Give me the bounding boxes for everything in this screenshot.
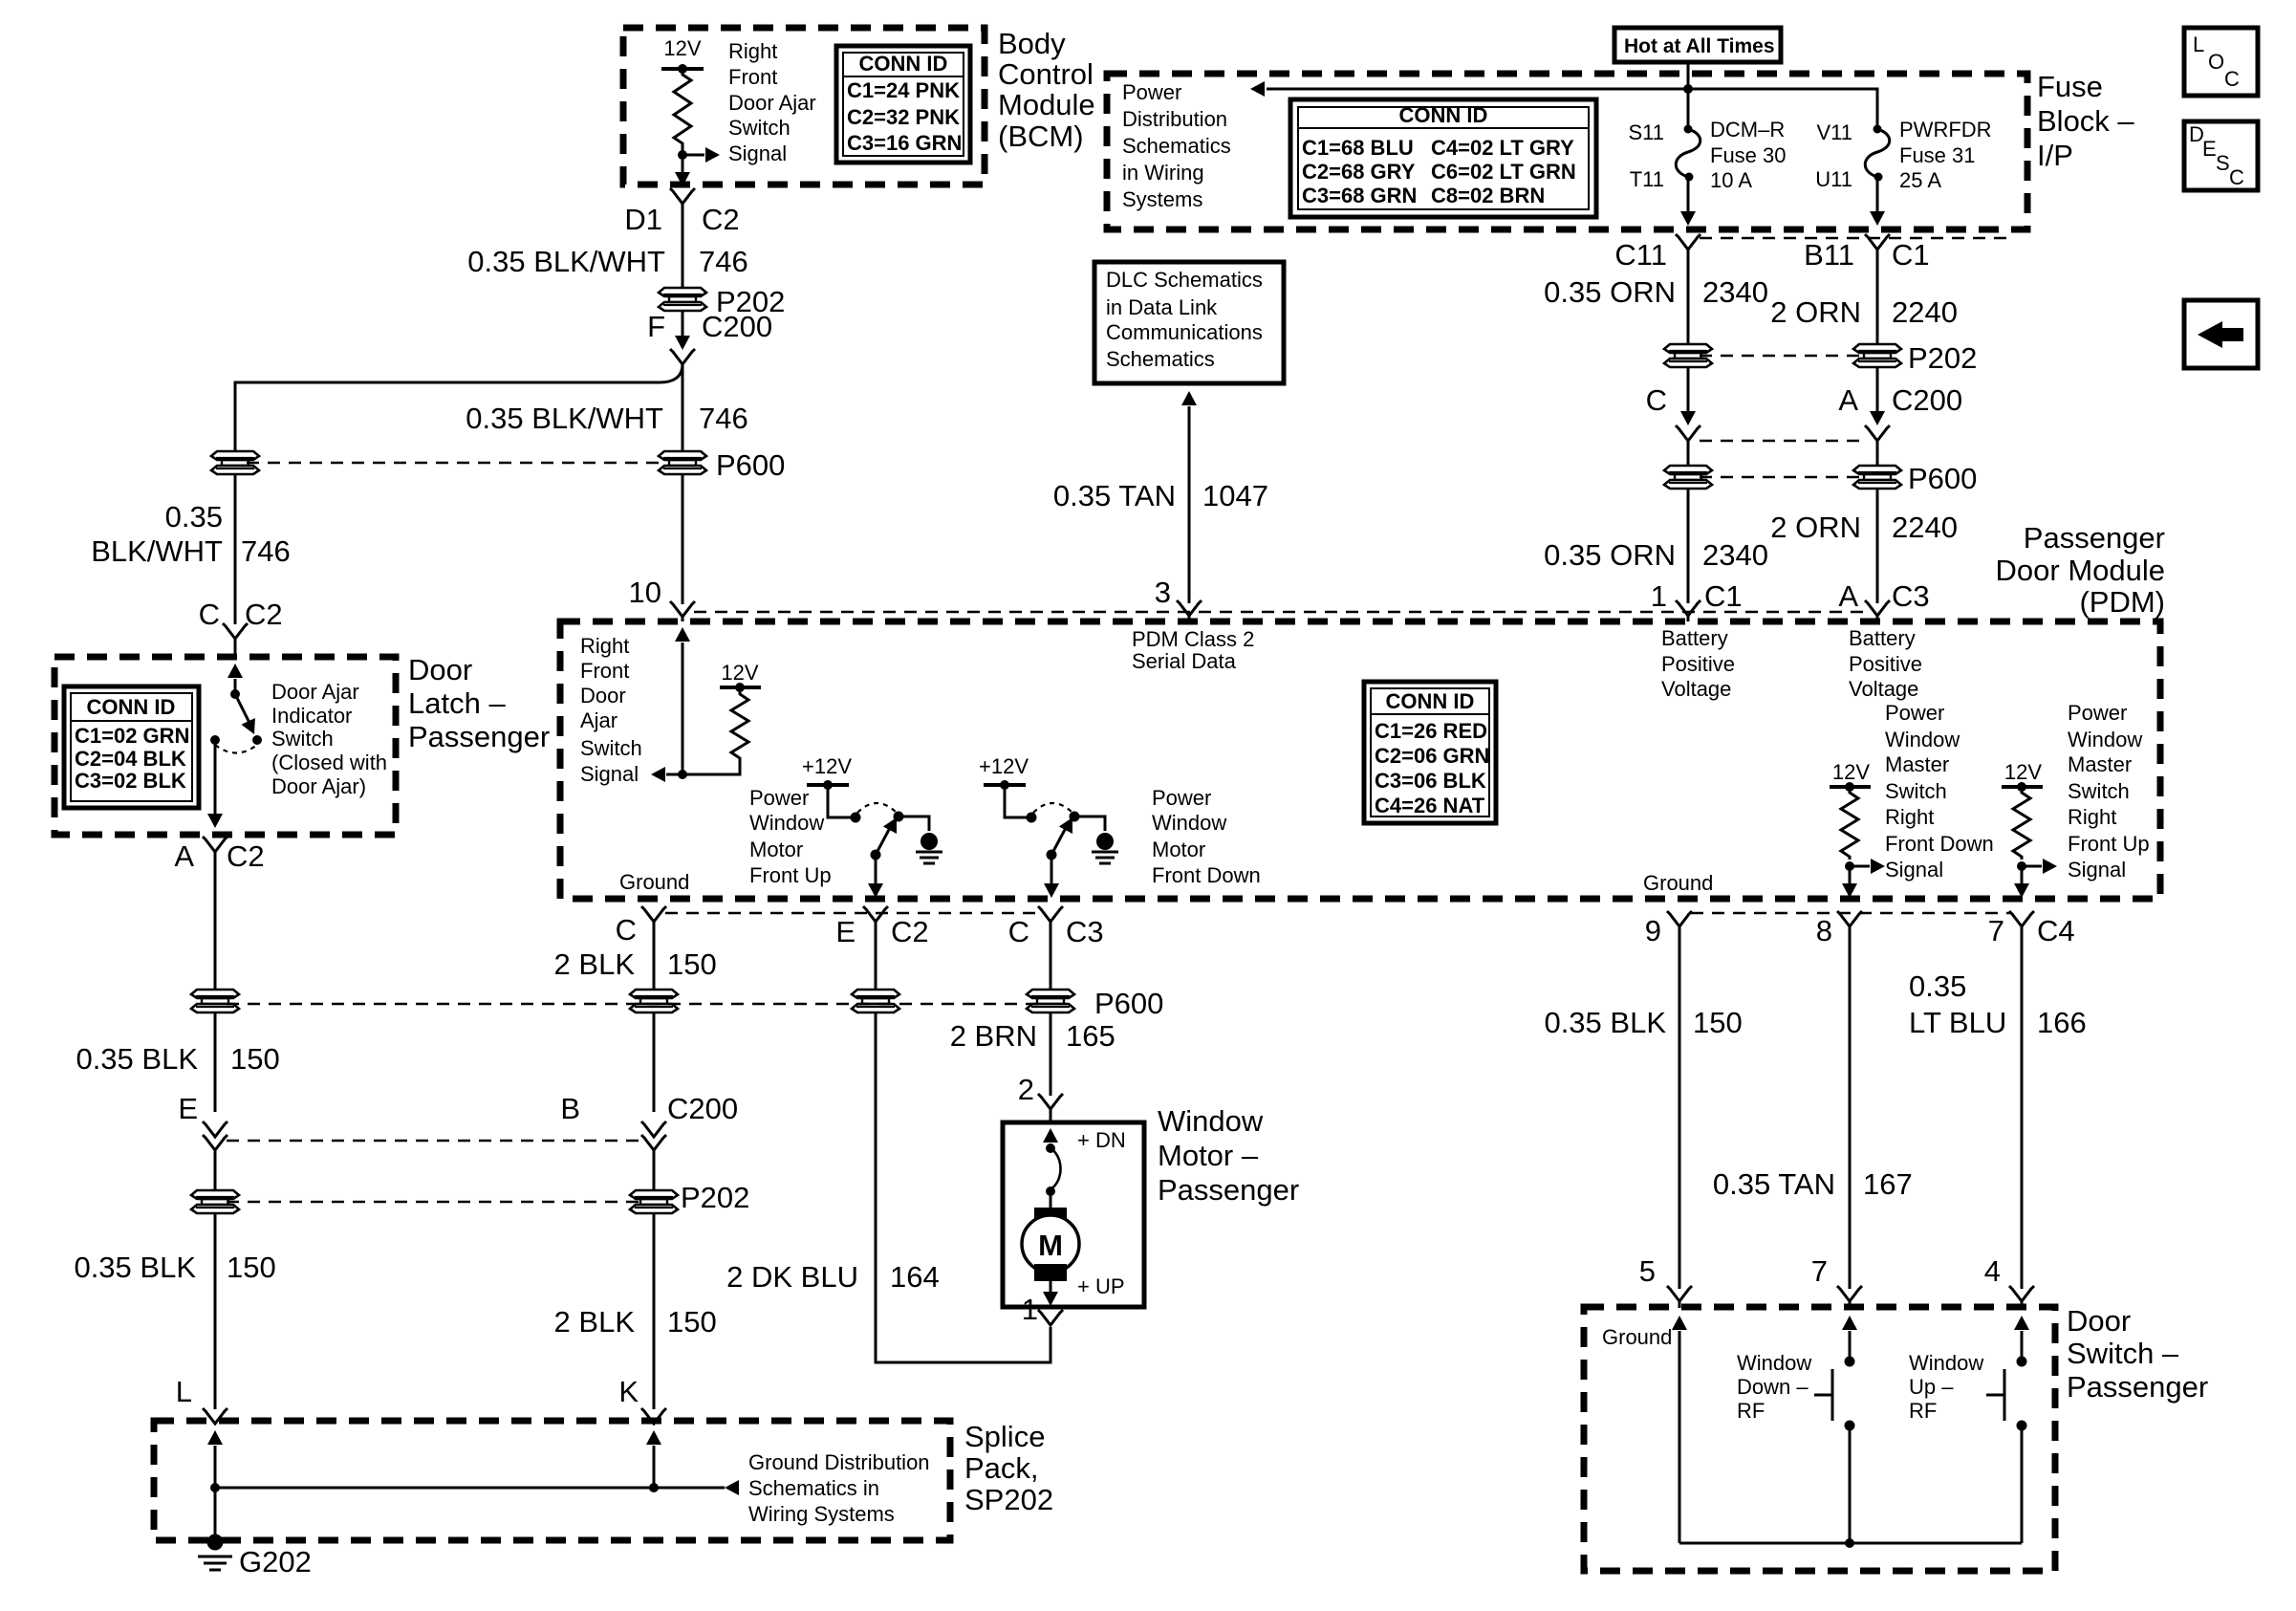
svg-text:0.35 TAN: 0.35 TAN [1053,479,1176,512]
svg-text:A: A [174,839,194,873]
svg-text:Ground: Ground [619,870,689,894]
relay dashed arc (front down) [1033,803,1072,813]
in-line connector on motor-down wire (P600 row) [1027,990,1074,1012]
svg-text:B11: B11 [1804,238,1854,272]
door ajar switch contact dot right [252,735,262,745]
relay blade (front up) [876,826,891,855]
svg-text:Front Down: Front Down [1152,863,1261,887]
svg-text:0.35: 0.35 [165,500,223,533]
svg-text:Module: Module [998,88,1095,121]
chevron door switch pin 7 [1837,1286,1862,1301]
svg-text:Window: Window [2068,728,2142,751]
svg-text:0.35 BLK: 0.35 BLK [76,1042,198,1076]
svg-text:C1=68 BLU: C1=68 BLU [1302,136,1414,160]
pin 7 entry arrow up [1842,1316,1857,1330]
chevron PDM pin A [1865,600,1890,616]
svg-text:Front Up: Front Up [749,863,832,887]
relay 12V bar (front up) [807,783,849,787]
svg-text:2 ORN: 2 ORN [1770,511,1861,544]
BCM signal arrow right [682,154,704,157]
wire 167 pin 8 to door switch [1849,926,1852,1289]
in-line connector P202 left wire [191,1190,239,1213]
splice reference arrow left [725,1480,739,1495]
svg-text:C11: C11 [1614,238,1667,272]
svg-text:SP202: SP202 [964,1483,1053,1516]
relay feed wire (front down) [1005,785,1029,817]
svg-text:Signal: Signal [580,762,639,786]
splice pin K arrow up [646,1430,661,1445]
master switch 12V bar (front down) [1830,785,1871,789]
window up switch plunger [2004,1369,2006,1421]
back arrow box [2184,300,2258,368]
serial data wire 1047 with up arrow [1181,391,1197,405]
svg-text:Latch –: Latch – [408,686,506,720]
svg-text:E: E [2202,137,2217,161]
svg-text:Right: Right [728,39,777,63]
relay blade dot (front up) [871,850,881,860]
svg-text:Ground Distribution: Ground Distribution [748,1450,930,1474]
ground bus wire [1679,1542,2022,1545]
wire 746 BCM to P202 [682,204,684,289]
svg-text:1047: 1047 [1202,479,1268,512]
svg-text:Fuse 30: Fuse 30 [1710,143,1787,167]
svg-text:(PDM): (PDM) [2079,585,2165,619]
wire to C200 row [214,1012,217,1112]
branch wire to left column [235,364,682,452]
svg-text:F: F [647,310,665,343]
svg-text:C3: C3 [1892,579,1930,613]
svg-text:DLC Schematics: DLC Schematics [1106,268,1263,292]
relay dashed arc (front up) [857,803,897,813]
dashed connector tie line C200 row [227,1140,642,1142]
svg-text:Serial Data: Serial Data [1132,649,1237,673]
svg-text:B: B [560,1092,580,1125]
svg-text:Window: Window [1152,811,1226,835]
svg-text:S: S [2216,151,2230,175]
svg-text:C1=02 GRN: C1=02 GRN [75,724,189,748]
svg-text:Control: Control [998,57,1094,91]
svg-text:C3=06 BLK: C3=06 BLK [1375,769,1486,793]
svg-text:T11: T11 [1630,167,1664,191]
svg-text:0.35 ORN: 0.35 ORN [1544,275,1676,309]
in-line connector P202 on 2240 wire [1853,344,1901,367]
wire 150 door latch to P600 row [214,852,217,991]
svg-text:L: L [176,1375,192,1408]
chevron PDM pin 7 [2009,911,2034,926]
svg-text:LT BLU: LT BLU [1909,1006,2006,1039]
svg-text:C2=68 GRY: C2=68 GRY [1302,160,1416,184]
PDM pull-up resistor (door ajar) [682,687,748,774]
relay output arrow pin C [1051,855,1053,883]
svg-text:in Wiring: in Wiring [1122,161,1204,185]
svg-text:Signal: Signal [1885,858,1943,882]
chevron door latch pin C [223,623,248,639]
motor-down wire P600 to pin 2 [1050,1012,1052,1096]
chevron fuse block pin B11 [1865,234,1890,250]
svg-text:Front Up: Front Up [2068,832,2150,856]
power feed arrow to Power Distribution [1250,81,1265,97]
svg-text:Wiring Systems: Wiring Systems [748,1502,895,1526]
svg-text:Ground: Ground [1643,871,1713,895]
module box: Fuse Block - I/P [1107,74,2027,229]
wire P600 to PDM pin 10 [682,473,684,604]
svg-text:S11: S11 [1628,120,1664,144]
svg-text:I/P: I/P [2037,139,2073,172]
svg-text:150: 150 [1693,1006,1743,1039]
connector C200 arrow + chevron on wire A [675,336,690,350]
svg-text:C: C [199,598,220,631]
splice junction dot L [210,1483,220,1492]
svg-text:Power: Power [2068,701,2127,725]
svg-text:12V: 12V [721,661,758,685]
svg-text:2 ORN: 2 ORN [1770,295,1861,329]
motor brush dot top [1046,1143,1055,1153]
fuse 31 PWRFDR [1874,125,1882,134]
fuse block CONN ID table [1290,99,1596,217]
pin 5 entry arrow up [1672,1316,1687,1330]
svg-text:Power: Power [749,786,809,810]
svg-text:Door Ajar: Door Ajar [728,91,816,115]
svg-text:Schematics in: Schematics in [748,1476,879,1500]
svg-text:RF: RF [1909,1399,1937,1423]
in-line connector P202 on 2340 wire [1664,344,1712,367]
svg-text:2240: 2240 [1892,511,1958,544]
svg-text:Voltage: Voltage [1849,677,1918,701]
svg-text:+ DN: + DN [1077,1128,1126,1152]
relay ground symbol (front up) [916,833,942,863]
ground wire to C200 [653,1012,656,1112]
svg-text:Front: Front [580,659,629,683]
svg-text:12V: 12V [1832,760,1870,784]
svg-text:C: C [2229,165,2244,189]
master switch output arrow (front up) [2021,866,2024,883]
module box: Passenger Door Module (PDM) [560,621,2160,899]
chevron PDM pin C (motor down) [1038,906,1063,922]
PDM CONN ID table [1364,682,1496,823]
in-line connector P600 on 2340 wire [1664,466,1712,489]
relay contact dot left (front up) [851,813,861,823]
relay output arrow pin E [875,855,877,883]
svg-text:C4=02 LT GRY: C4=02 LT GRY [1431,136,1574,160]
chevron splice pack pin K [641,1408,666,1424]
wire segment to C200 [1687,366,1690,412]
svg-text:A: A [1838,383,1858,417]
svg-text:C2: C2 [891,915,929,948]
chevron motor pin 2 [1038,1094,1063,1109]
svg-text:E: E [835,915,856,948]
feed junction dot [1683,84,1693,94]
svg-text:Right: Right [580,634,629,658]
svg-text:Positive: Positive [1849,652,1922,676]
fuse 30 output arrow [1687,177,1690,211]
in-line connector on left wire (P600 row) [191,990,239,1012]
svg-text:0.35 BLK: 0.35 BLK [74,1251,196,1284]
PDM signal junction dot [678,770,687,779]
dashed tie line P600 bottom row [227,1003,1039,1005]
chevron door switch pin 5 [1667,1286,1692,1301]
svg-text:150: 150 [230,1042,280,1076]
BCM junction dot [678,150,687,160]
svg-text:CONN ID: CONN ID [859,52,948,76]
motor armature symbol [1050,1191,1052,1208]
door ajar switch dashed arc [215,745,257,753]
svg-text:C1: C1 [1892,238,1930,272]
svg-text:P600: P600 [1094,987,1163,1020]
svg-text:+ UP: + UP [1077,1274,1125,1298]
svg-text:Passenger: Passenger [408,720,550,753]
svg-text:Passenger: Passenger [1158,1173,1299,1207]
svg-text:Window: Window [1885,728,1960,751]
resistor inside BCM (door ajar pull-up) [674,69,691,155]
svg-text:C200: C200 [1892,383,1962,417]
svg-text:CONN ID: CONN ID [1386,689,1475,713]
BCM pin 10 arrow down (exit) [682,155,684,172]
LOC index box [2184,28,2258,96]
ground bus junction dot [1845,1538,1854,1548]
svg-text:Indicator: Indicator [271,704,352,728]
svg-text:0.35 TAN: 0.35 TAN [1713,1167,1835,1201]
svg-text:BLK/WHT: BLK/WHT [91,534,223,568]
motor exit arrow down [1050,1281,1052,1293]
svg-text:4: 4 [1984,1254,2001,1288]
svg-text:DCM–R: DCM–R [1710,118,1785,142]
svg-text:Window: Window [1158,1104,1264,1138]
svg-text:10 A: 10 A [1710,168,1752,192]
power feed horizontal wire [1267,89,1877,129]
fuse 30 DCM-R [1684,125,1693,134]
in-line connector P202 ground wire [630,1190,678,1213]
dashed tie line P202 right row [1700,355,1864,357]
in-line connector on E wire (P600 row) [852,990,899,1012]
svg-text:M: M [1038,1229,1063,1262]
svg-text:2 DK BLU: 2 DK BLU [726,1260,858,1294]
svg-text:C3: C3 [1066,915,1104,948]
window up switch lower wire [2021,1426,2024,1543]
svg-text:746: 746 [699,245,748,278]
svg-text:Door: Door [2067,1304,2131,1338]
svg-text:Front: Front [728,65,777,89]
svg-text:P202: P202 [681,1181,749,1214]
svg-text:164: 164 [890,1260,940,1294]
door ajar switch contact dot top [230,689,240,699]
dashed tie line above PDM top [694,611,1866,613]
chevron PDM pin E [863,906,888,922]
svg-text:C8=02 BRN: C8=02 BRN [1431,184,1545,207]
splice pin L arrow up [207,1430,223,1445]
svg-text:Front Down: Front Down [1885,832,1994,856]
chevron PDM pin 1 [1676,600,1700,616]
relay contact dot right (front up) [894,812,904,822]
svg-text:Pack,: Pack, [964,1451,1039,1485]
module box: Splice Pack SP202 [154,1421,950,1540]
motor entry arrow up [1043,1128,1058,1143]
svg-text:2340: 2340 [1702,538,1768,572]
svg-text:Positive: Positive [1661,652,1735,676]
dashed tie line below PDM right [1691,912,2010,914]
svg-text:Block –: Block – [2037,104,2134,138]
svg-text:RF: RF [1737,1399,1765,1423]
svg-text:G202: G202 [239,1545,312,1578]
svg-text:2 BLK: 2 BLK [554,1305,636,1339]
svg-text:2 BLK: 2 BLK [554,947,636,981]
svg-text:C6=02 LT GRN: C6=02 LT GRN [1431,160,1576,184]
master switch output arrow (front down) [1849,866,1852,883]
reference box: DLC Schematics [1094,262,1284,383]
motor-down wire to P600 [1050,922,1052,991]
svg-text:Motor –: Motor – [1158,1139,1259,1172]
master switch signal arrow right (front up) [2022,865,2042,868]
svg-text:167: 167 [1863,1167,1913,1201]
svg-text:Down –: Down – [1737,1375,1809,1399]
svg-text:Door Module: Door Module [1996,554,2165,587]
svg-text:Power: Power [1122,80,1181,104]
svg-text:C: C [1646,383,1667,417]
svg-text:Schematics: Schematics [1122,134,1231,158]
svg-text:Door Ajar): Door Ajar) [271,774,366,798]
svg-text:K: K [618,1375,639,1408]
svg-text:0.35 BLK/WHT: 0.35 BLK/WHT [467,245,665,278]
svg-text:7: 7 [1811,1254,1828,1288]
svg-text:Motor: Motor [1152,838,1205,861]
svg-text:A: A [1838,579,1858,613]
svg-text:C3=02 BLK: C3=02 BLK [75,769,186,793]
module box: Window Motor - Passenger [1003,1122,1144,1307]
svg-text:150: 150 [667,1305,717,1339]
relay 12V bar (front down) [984,783,1026,787]
wire 150 pin 9 to door switch [1679,926,1681,1289]
svg-text:Communications: Communications [1106,320,1263,344]
svg-text:5: 5 [1639,1254,1656,1288]
svg-text:Switch: Switch [2068,779,2130,803]
svg-text:150: 150 [667,947,717,981]
relay ground symbol (front down) [1092,833,1118,863]
svg-text:3: 3 [1155,576,1171,609]
motor internal arc [1051,1148,1061,1189]
master switch junction dot (front down) [1845,861,1854,871]
svg-text:Window: Window [1909,1351,1983,1375]
svg-text:C2=32 PNK: C2=32 PNK [847,105,960,129]
door ajar switch contact dot left [210,735,220,745]
svg-text:8: 8 [1816,914,1832,947]
wire 2240 lower [1876,488,1879,603]
dashed connector tie line below fuse block [1700,237,2015,239]
wire 2340 lower [1687,488,1690,603]
svg-text:0.35 BLK/WHT: 0.35 BLK/WHT [466,402,663,435]
pin 4 entry arrow up [2014,1316,2029,1330]
svg-text:Passenger: Passenger [2067,1370,2208,1404]
svg-text:150: 150 [227,1251,276,1284]
wire C200 to P600 [682,364,684,452]
svg-text:Splice: Splice [964,1420,1045,1453]
wire left P600 to door latch [234,473,237,624]
svg-text:Schematics: Schematics [1106,347,1215,371]
power feed wire from Hot at All Times [1687,62,1690,129]
svg-text:Door: Door [408,653,472,686]
svg-text:746: 746 [699,402,748,435]
svg-text:2340: 2340 [1702,275,1768,309]
svg-text:10: 10 [629,576,661,609]
chevron fuse block pin C11 [1676,234,1700,250]
E wire P600 to motor pin 1 (L shape) [876,1012,1051,1362]
wire 2240 upper [1876,250,1879,345]
svg-text:166: 166 [2037,1006,2087,1039]
fuse 31 output arrow [1876,177,1879,211]
svg-text:C: C [616,913,637,947]
svg-text:Switch: Switch [1885,779,1947,803]
svg-text:12V: 12V [2004,760,2042,784]
svg-text:0.35 ORN: 0.35 ORN [1544,538,1676,572]
svg-text:C2=06 GRN: C2=06 GRN [1375,744,1489,768]
master switch junction dot (front up) [2017,861,2026,871]
chevron PDM pin 3 [1177,600,1202,616]
connector C200 arrow + chevron ground wire [641,1121,666,1137]
svg-text:Passenger: Passenger [2024,521,2165,555]
svg-text:2240: 2240 [1892,295,1958,329]
svg-text:C1=24 PNK: C1=24 PNK [847,78,960,102]
svg-text:Switch: Switch [271,727,334,751]
svg-text:C200: C200 [702,310,772,343]
svg-text:Fuse: Fuse [2037,70,2103,103]
svg-text:C200: C200 [667,1092,738,1125]
svg-text:C2=04 BLK: C2=04 BLK [75,747,186,771]
relay output to ground (front down) [1074,816,1105,831]
splice junction dot K [649,1483,659,1492]
window down switch plunger [1831,1369,1834,1421]
window down switch contact dots [1845,1357,1855,1367]
wire 166 pin 7 to door switch [2021,926,2024,1289]
svg-text:Power: Power [1885,701,1944,725]
svg-text:CONN ID: CONN ID [87,695,176,719]
svg-text:25 A: 25 A [1899,168,1941,192]
door latch entry arrow up [227,664,243,678]
connector C200 arrows + chevrons (right pair) [1680,411,1696,425]
svg-text:746: 746 [241,534,291,568]
svg-text:Battery: Battery [1849,626,1916,650]
window down switch lower wire [1849,1426,1852,1543]
ground wire 2 BLK 150 lower [653,1212,656,1409]
relay contact dot left (front down) [1027,813,1037,823]
svg-text:2: 2 [1018,1073,1034,1106]
wire splice to ground G202 [214,1488,217,1535]
in-line connector P600 on 2240 wire [1853,466,1901,489]
master switch 12V bar (front up) [2002,785,2043,789]
svg-text:Ajar: Ajar [580,708,617,732]
E wire to P600 [875,922,877,991]
svg-text:C1: C1 [1704,579,1743,613]
splice bus wire [215,1487,725,1490]
svg-text:P600: P600 [1908,462,1977,495]
dashed tie line P600 right row [1700,476,1864,478]
svg-text:Motor: Motor [749,838,803,861]
chevron door latch pin A [203,837,227,852]
wire segment to P600 [1687,441,1690,467]
svg-text:C: C [2224,67,2240,91]
svg-text:L: L [2193,33,2204,56]
svg-text:Hot at All Times: Hot at All Times [1624,35,1775,57]
svg-text:Right: Right [1885,805,1934,829]
svg-text:Systems: Systems [1122,187,1202,211]
PDM signal arrow left [666,773,682,776]
in-line connector P202 on wire A [659,288,706,311]
ground symbol G202 [207,1535,224,1551]
svg-text:C2: C2 [227,839,265,873]
in-line connector P600 on left wire [211,451,259,474]
master switch resistor (front up) [2013,787,2030,860]
chevron PDM pin 9 [1667,911,1692,926]
chevron door switch pin 4 [2009,1286,2034,1301]
svg-text:(BCM): (BCM) [998,120,1084,153]
svg-text:Signal: Signal [728,142,787,165]
